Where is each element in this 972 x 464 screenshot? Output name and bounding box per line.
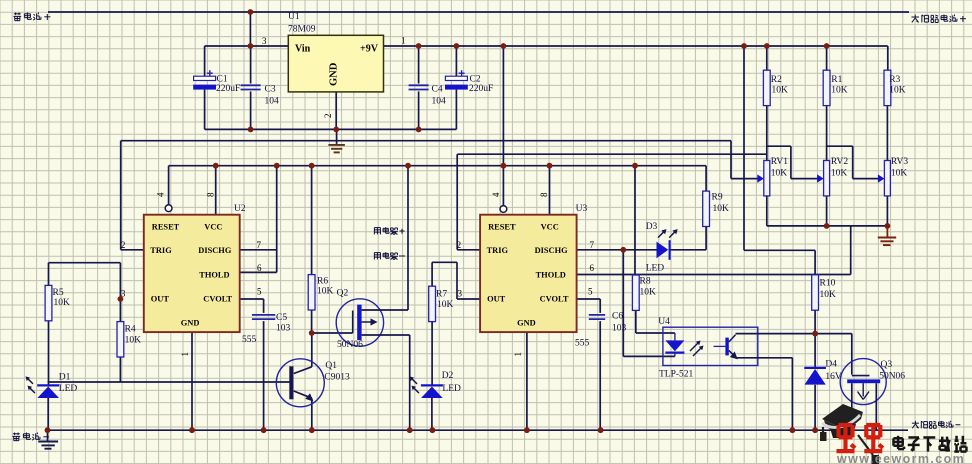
svg-text:VCC: VCC: [541, 222, 559, 231]
svg-text:OUT: OUT: [151, 294, 170, 303]
svg-text:1: 1: [513, 352, 523, 357]
svg-text:RV3: RV3: [891, 157, 908, 167]
svg-text:6: 6: [257, 263, 262, 273]
svg-text:104: 104: [265, 97, 280, 107]
svg-text:www.eeworm.com: www.eeworm.com: [836, 452, 965, 464]
svg-text:CVOLT: CVOLT: [203, 294, 232, 303]
svg-text:3: 3: [262, 36, 267, 46]
svg-text:R6: R6: [317, 277, 328, 287]
svg-text:1: 1: [401, 36, 406, 46]
svg-text:RV2: RV2: [831, 157, 848, 167]
svg-text:U4: U4: [658, 317, 670, 327]
svg-text:U2: U2: [234, 204, 246, 214]
svg-text:6: 6: [590, 263, 595, 273]
svg-text:R7: R7: [436, 290, 447, 300]
svg-text:10K: 10K: [831, 86, 848, 96]
svg-text:2: 2: [121, 240, 126, 250]
svg-text:THOLD: THOLD: [536, 271, 566, 280]
svg-text:8: 8: [206, 192, 216, 197]
svg-text:C9013: C9013: [324, 373, 350, 383]
svg-text:50N06: 50N06: [337, 340, 363, 350]
svg-text:16V: 16V: [825, 372, 842, 382]
svg-text:555: 555: [242, 335, 257, 345]
svg-text:10K: 10K: [125, 336, 142, 346]
svg-text:7: 7: [590, 240, 595, 250]
svg-text:Q1: Q1: [325, 361, 337, 371]
svg-text:U1: U1: [288, 12, 300, 22]
svg-text:THOLD: THOLD: [199, 271, 229, 280]
svg-text:TRIG: TRIG: [487, 246, 509, 255]
svg-text:Q3: Q3: [881, 360, 893, 370]
svg-text:VCC: VCC: [204, 222, 222, 231]
svg-text:+9V: +9V: [360, 44, 379, 55]
svg-text:R5: R5: [53, 288, 64, 298]
svg-text:103: 103: [612, 324, 627, 334]
svg-text:Vin: Vin: [295, 44, 311, 55]
svg-text:5: 5: [588, 287, 593, 297]
svg-text:10K: 10K: [891, 169, 908, 179]
svg-text:R8: R8: [640, 277, 651, 287]
svg-text:LED: LED: [646, 264, 665, 274]
svg-text:DISCHG: DISCHG: [198, 246, 232, 255]
svg-text:D2: D2: [442, 371, 454, 381]
svg-text:RV1: RV1: [771, 157, 788, 167]
svg-text:R10: R10: [820, 279, 836, 289]
svg-text:GND: GND: [517, 318, 536, 327]
svg-text:C6: C6: [612, 312, 623, 322]
svg-text:TRIG: TRIG: [150, 246, 172, 255]
svg-text:LED: LED: [59, 384, 78, 394]
svg-text:1: 1: [180, 352, 190, 357]
svg-text:10K: 10K: [640, 288, 657, 298]
svg-text:R3: R3: [889, 75, 900, 85]
svg-text:LED: LED: [442, 384, 461, 394]
svg-text:U3: U3: [576, 204, 588, 214]
svg-text:2: 2: [457, 240, 462, 250]
svg-text:C1: C1: [217, 75, 228, 85]
svg-text:C3: C3: [265, 85, 276, 95]
svg-text:10K: 10K: [437, 300, 454, 310]
svg-text:GND: GND: [329, 62, 340, 86]
svg-text:10K: 10K: [889, 86, 906, 96]
svg-text:2: 2: [323, 114, 333, 119]
svg-text:D4: D4: [825, 360, 837, 370]
svg-text:RESET: RESET: [152, 222, 180, 231]
svg-text:8: 8: [539, 192, 549, 197]
svg-text:555: 555: [575, 339, 590, 349]
svg-text:220uF: 220uF: [216, 84, 240, 94]
svg-text:10K: 10K: [772, 86, 789, 96]
svg-text:Q2: Q2: [337, 289, 349, 299]
svg-text:DISCHG: DISCHG: [535, 246, 569, 255]
svg-text:R9: R9: [712, 192, 723, 202]
svg-text:10K: 10K: [831, 169, 848, 179]
svg-text:104: 104: [432, 97, 447, 107]
svg-text:4: 4: [491, 192, 501, 197]
svg-text:3: 3: [121, 289, 126, 299]
svg-text:GND: GND: [181, 318, 200, 327]
svg-text:7: 7: [257, 240, 262, 250]
svg-text:10K: 10K: [771, 169, 788, 179]
svg-text:50N06: 50N06: [879, 372, 905, 382]
svg-text:220uF: 220uF: [469, 84, 493, 94]
svg-text:R1: R1: [831, 75, 842, 85]
svg-text:C2: C2: [470, 75, 481, 85]
svg-text:103: 103: [276, 324, 291, 334]
svg-text:TLP-521: TLP-521: [659, 370, 694, 380]
svg-text:OUT: OUT: [487, 294, 506, 303]
svg-text:4: 4: [156, 192, 166, 197]
svg-text:D3: D3: [646, 222, 658, 232]
svg-text:RESET: RESET: [488, 222, 516, 231]
svg-text:C4: C4: [432, 85, 443, 95]
svg-text:CVOLT: CVOLT: [540, 294, 569, 303]
svg-text:10K: 10K: [54, 298, 71, 308]
svg-text:R2: R2: [771, 75, 782, 85]
svg-text:C5: C5: [276, 313, 287, 323]
svg-text:5: 5: [257, 287, 262, 297]
svg-text:D1: D1: [59, 372, 71, 382]
svg-text:R4: R4: [125, 325, 136, 335]
svg-text:10K: 10K: [820, 290, 837, 300]
svg-text:78M09: 78M09: [288, 25, 316, 35]
svg-text:3: 3: [458, 289, 463, 299]
svg-text:10K: 10K: [317, 287, 334, 297]
svg-text:10K: 10K: [713, 204, 730, 214]
